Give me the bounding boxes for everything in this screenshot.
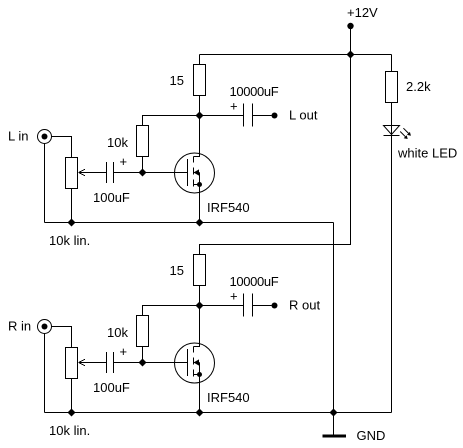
wire: drain node to 10k resistor (L channel) <box>143 116 200 126</box>
wire: L channel ground rail down to bottom ground rail <box>333 223 335 413</box>
wire: 10k resistor to gate node (R channel) <box>142 347 144 363</box>
wire: jack R in shield to ground rail <box>44 334 46 413</box>
wire: potentiometer wiper to 100uF capacitor (L channel) <box>79 172 107 174</box>
junction gate node (L channel) <box>139 169 147 177</box>
wire: 2.2k resistor to LED anode <box>391 103 393 413</box>
svg-text:+: + <box>120 154 128 169</box>
svg-text:+: + <box>230 99 238 114</box>
svg-text:+: + <box>120 344 128 359</box>
wire: 15 ohm to drain node (R channel) <box>199 286 201 306</box>
resistor 2.2k <box>386 72 398 103</box>
wire: +12V rail down and across to R channel 15 ohm resistor <box>200 55 351 255</box>
wire: jack R in to potentiometer top <box>52 327 72 348</box>
wire: jack L in to potentiometer top <box>52 137 72 158</box>
wire: 10k resistor to gate node (L channel) <box>142 157 144 173</box>
svg-text:white LED: white LED <box>397 146 457 161</box>
junction potentiometer bottom on ground rail (R channel) <box>68 409 76 417</box>
svg-text:100uF: 100uF <box>93 380 130 395</box>
wire: ground rail (L channel) <box>45 222 334 224</box>
wire: gate node to MOSFET gate (R channel) <box>143 362 188 364</box>
resistor 10k (R channel) <box>137 316 149 347</box>
wire: potentiometer bottom to ground rail (L channel) <box>71 189 73 223</box>
svg-text:IRF540: IRF540 <box>207 200 250 215</box>
transistor IRF540 N-channel MOSFET (L channel) <box>175 116 215 194</box>
svg-text:10k lin.: 10k lin. <box>49 233 90 248</box>
input jack L in <box>38 130 52 144</box>
ground <box>323 413 347 437</box>
svg-text:+: + <box>230 289 238 304</box>
junction gate node (R channel) <box>139 359 147 367</box>
wire: 100uF capacitor to gate node (R channel) <box>114 362 143 364</box>
svg-text:L in: L in <box>8 129 28 144</box>
resistor 10k (L channel) <box>137 126 149 157</box>
svg-text:10k: 10k <box>107 135 128 150</box>
wire: top rail to 2.2k resistor <box>391 55 393 72</box>
junction potentiometer bottom on ground rail (L channel) <box>68 219 76 227</box>
svg-text:+12V: +12V <box>347 5 378 20</box>
wire: 10000uF capacitor to L out terminal <box>253 115 272 117</box>
resistor 15 ohm (L channel) <box>194 65 206 96</box>
wire: MOSFET source to ground rail (R channel) <box>199 375 201 413</box>
junction drain node (L channel) <box>196 112 204 120</box>
svg-text:10000uF: 10000uF <box>230 84 279 99</box>
capacitor 10000uF (L channel) <box>243 104 245 127</box>
wire: drain node to 10000uF capacitor (R channel) <box>200 305 244 307</box>
svg-text:10000uF: 10000uF <box>230 274 279 289</box>
wire: 100uF capacitor to gate node (L channel) <box>114 172 143 174</box>
wire: top +12V rail <box>200 54 392 56</box>
terminal L out <box>272 113 278 119</box>
svg-text:15: 15 <box>170 73 184 88</box>
svg-text:10k: 10k <box>107 325 128 340</box>
wire: +12V rail to 15 ohm resistor (L channel) <box>199 55 201 65</box>
capacitor 100uF (R channel) <box>106 352 108 373</box>
resistor 15 ohm (R channel) <box>194 255 206 286</box>
junction top rail <box>347 51 355 59</box>
wire: MOSFET source to ground rail (L channel) <box>199 185 201 223</box>
svg-text:R out: R out <box>289 298 320 313</box>
capacitor 100uF (L channel) <box>106 162 108 183</box>
terminal R out <box>272 303 278 309</box>
svg-text:R in: R in <box>8 319 31 334</box>
junction drain node (R channel) <box>196 302 204 310</box>
potentiometer 10k lin (L channel) <box>66 158 86 189</box>
wire: potentiometer bottom to ground rail (R channel) <box>71 379 73 413</box>
svg-text:IRF540: IRF540 <box>207 390 250 405</box>
svg-text:GND: GND <box>357 428 386 443</box>
wire: potentiometer wiper to 100uF capacitor (R channel) <box>79 362 107 364</box>
potentiometer 10k lin (R channel) <box>66 348 86 379</box>
svg-text:2.2k: 2.2k <box>406 79 431 94</box>
wire: 15 ohm to drain node (L channel) <box>199 96 201 116</box>
+12V supply terminal <box>347 23 353 29</box>
LED white LED <box>384 126 411 140</box>
svg-text:100uF: 100uF <box>93 190 130 205</box>
input jack R in <box>38 320 52 334</box>
wire: 10000uF capacitor to R out terminal <box>253 305 272 307</box>
wire: +12V terminal to top rail <box>350 26 352 55</box>
svg-text:15: 15 <box>170 263 184 278</box>
junction MOSFET source on ground rail (L channel) <box>196 219 204 227</box>
wire: gate node to MOSFET gate (L channel) <box>143 172 188 174</box>
wire: drain node to 10k resistor (R channel) <box>143 306 200 316</box>
transistor IRF540 N-channel MOSFET (R channel) <box>175 306 215 384</box>
capacitor 10000uF (R channel) <box>243 294 245 317</box>
wire: drain node to 10000uF capacitor (L channel) <box>200 115 244 117</box>
wire: ground rail (R channel) <box>45 412 392 414</box>
junction ground node <box>330 409 338 417</box>
junction MOSFET source on ground rail (R channel) <box>196 409 204 417</box>
wire: jack L in shield to ground rail <box>44 144 46 223</box>
svg-text:L out: L out <box>289 108 318 123</box>
svg-text:10k lin.: 10k lin. <box>49 423 90 438</box>
